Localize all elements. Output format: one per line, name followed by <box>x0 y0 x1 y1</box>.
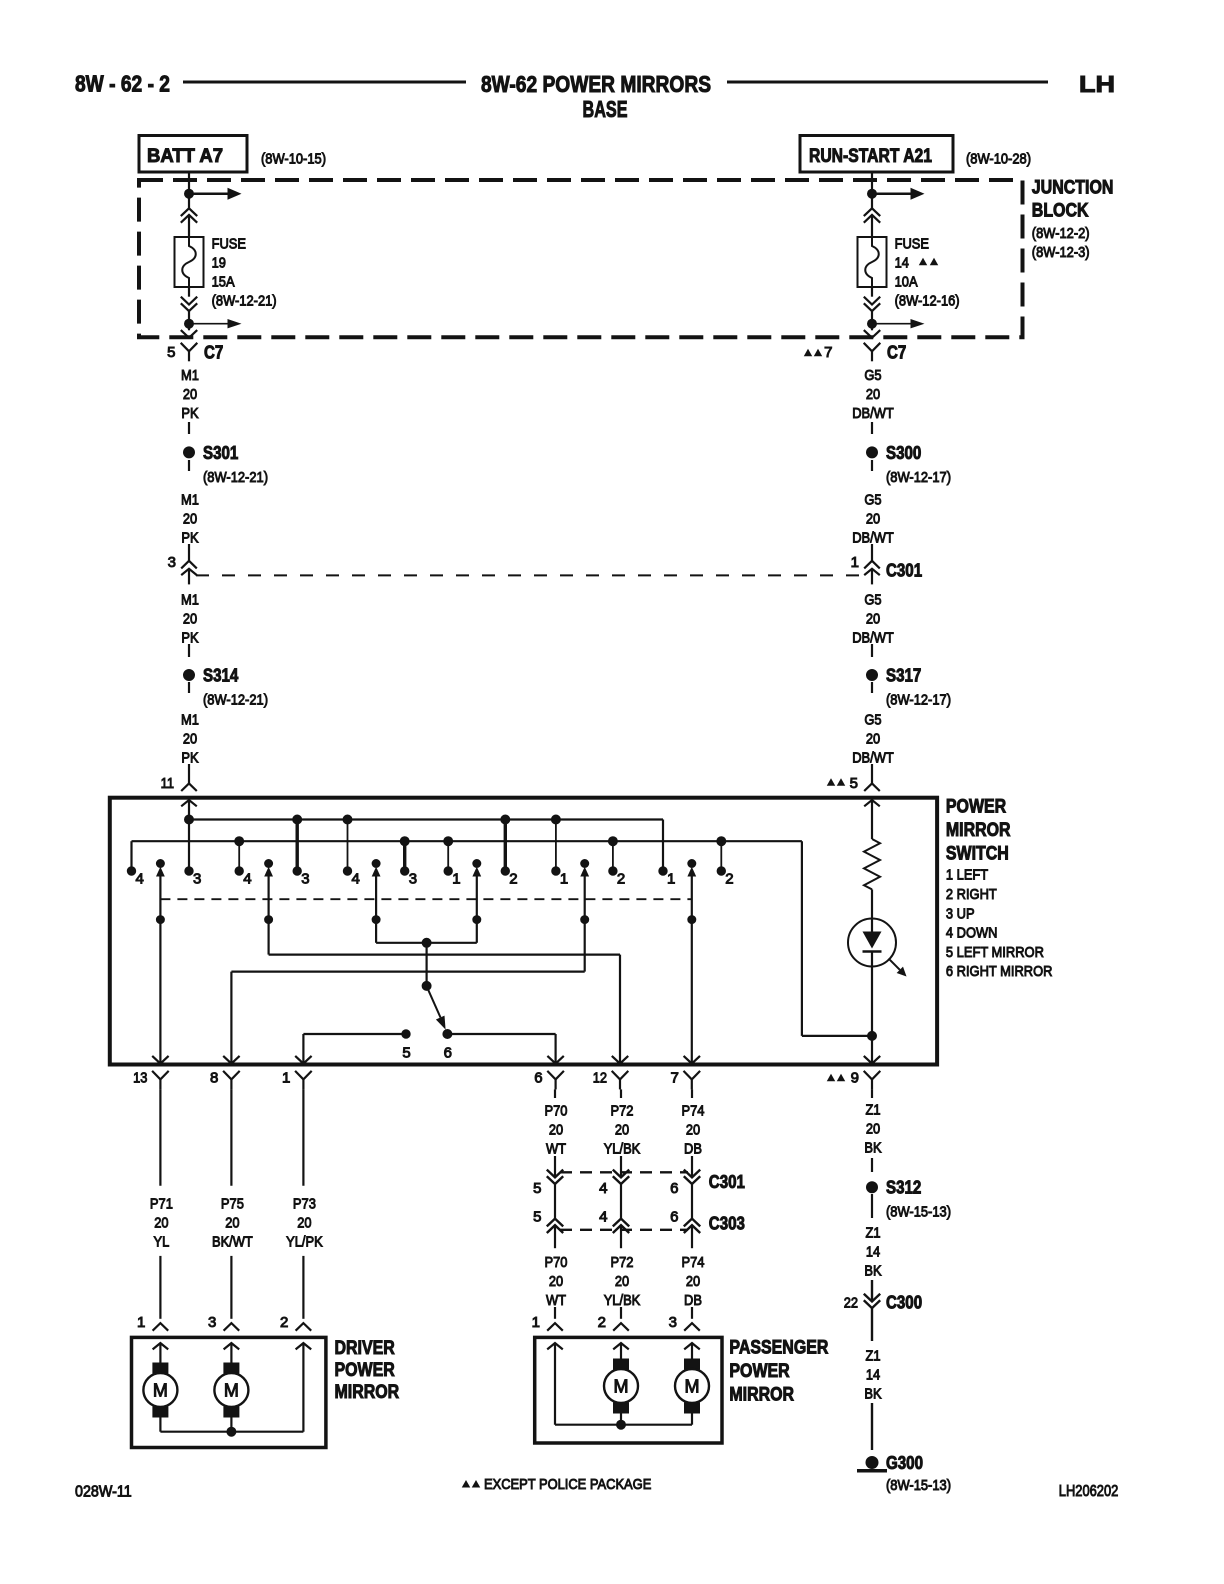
svg-text:S314: S314 <box>203 666 238 686</box>
svg-text:M1: M1 <box>181 711 199 728</box>
svg-text:1: 1 <box>667 871 675 888</box>
svg-text:JUNCTION: JUNCTION <box>1032 178 1114 199</box>
svg-text:12: 12 <box>593 1070 607 1087</box>
svg-text:14: 14 <box>895 254 909 271</box>
svg-text:028W-11: 028W-11 <box>75 1484 132 1501</box>
svg-text:20: 20 <box>183 386 197 403</box>
svg-text:LH206202: LH206202 <box>1059 1483 1119 1500</box>
svg-text:6 RIGHT MIRROR: 6 RIGHT MIRROR <box>946 963 1053 980</box>
svg-text:2: 2 <box>280 1314 288 1331</box>
svg-text:1: 1 <box>560 871 568 888</box>
svg-text:DRIVER: DRIVER <box>335 1338 396 1359</box>
svg-text:11: 11 <box>161 775 174 792</box>
svg-text:S300: S300 <box>886 443 921 463</box>
svg-text:C7: C7 <box>204 343 223 363</box>
svg-text:3: 3 <box>168 554 176 571</box>
svg-text:2 RIGHT: 2 RIGHT <box>946 886 997 903</box>
svg-text:FUSE: FUSE <box>212 235 246 252</box>
svg-text:3: 3 <box>669 1314 677 1331</box>
svg-text:1: 1 <box>532 1314 540 1331</box>
svg-text:2: 2 <box>617 871 625 888</box>
svg-text:7: 7 <box>670 1070 678 1087</box>
svg-text:BK: BK <box>864 1139 881 1156</box>
svg-text:BASE: BASE <box>583 96 628 122</box>
svg-text:S317: S317 <box>886 666 921 686</box>
svg-text:1: 1 <box>452 871 460 888</box>
svg-text:S301: S301 <box>203 443 238 463</box>
svg-text:1 LEFT: 1 LEFT <box>946 867 988 884</box>
svg-text:20: 20 <box>866 730 880 747</box>
svg-text:3: 3 <box>193 871 201 888</box>
svg-text:(8W-12-21): (8W-12-21) <box>203 691 268 708</box>
svg-text:DB/WT: DB/WT <box>852 629 894 646</box>
svg-text:C301: C301 <box>886 561 922 581</box>
svg-text:3 UP: 3 UP <box>946 905 975 922</box>
svg-text:PASSENGER: PASSENGER <box>729 1337 828 1358</box>
svg-text:PK: PK <box>181 405 198 422</box>
svg-text:20: 20 <box>549 1273 563 1290</box>
svg-text:13: 13 <box>133 1070 147 1087</box>
svg-text:2: 2 <box>509 871 517 888</box>
svg-text:M1: M1 <box>181 367 199 384</box>
svg-text:M1: M1 <box>181 591 199 608</box>
svg-text:3: 3 <box>409 871 417 888</box>
svg-text:8W - 62 - 2: 8W - 62 - 2 <box>75 71 170 97</box>
svg-text:YL/BK: YL/BK <box>604 1140 641 1157</box>
svg-text:4 DOWN: 4 DOWN <box>946 925 998 942</box>
svg-text:DB: DB <box>684 1140 702 1157</box>
svg-text:5: 5 <box>533 1209 541 1226</box>
svg-text:8W-62 POWER MIRRORS: 8W-62 POWER MIRRORS <box>481 71 711 97</box>
svg-text:(8W-10-15): (8W-10-15) <box>261 151 326 168</box>
svg-text:C301: C301 <box>709 1172 745 1192</box>
svg-text:P72: P72 <box>611 1102 634 1119</box>
svg-text:P72: P72 <box>611 1254 634 1271</box>
svg-text:22: 22 <box>844 1295 858 1312</box>
svg-text:POWER: POWER <box>729 1361 790 1382</box>
svg-text:5: 5 <box>167 344 175 361</box>
svg-text:M: M <box>224 1380 239 1400</box>
svg-text:P74: P74 <box>682 1254 705 1271</box>
svg-text:20: 20 <box>866 386 880 403</box>
svg-text:RUN-START A21: RUN-START A21 <box>809 146 932 167</box>
svg-text:(8W-12-17): (8W-12-17) <box>886 691 951 708</box>
svg-text:4: 4 <box>136 871 144 888</box>
svg-text:C303: C303 <box>709 1213 745 1233</box>
svg-text:G5: G5 <box>864 711 881 728</box>
svg-text:YL/PK: YL/PK <box>286 1233 323 1250</box>
svg-text:Z1: Z1 <box>865 1224 880 1241</box>
svg-text:6: 6 <box>444 1045 452 1062</box>
svg-text:14: 14 <box>866 1243 880 1260</box>
svg-text:19: 19 <box>212 254 226 271</box>
svg-text:POWER: POWER <box>335 1360 396 1381</box>
svg-text:20: 20 <box>866 510 880 527</box>
svg-text:C7: C7 <box>887 343 906 363</box>
svg-text:BK: BK <box>864 1385 881 1402</box>
svg-text:PK: PK <box>181 629 198 646</box>
svg-text:G5: G5 <box>864 367 881 384</box>
svg-text:15A: 15A <box>212 273 235 290</box>
svg-text:(8W-12-16): (8W-12-16) <box>895 292 960 309</box>
svg-text:20: 20 <box>297 1214 311 1231</box>
svg-text:8: 8 <box>210 1070 218 1087</box>
svg-text:P70: P70 <box>545 1254 568 1271</box>
svg-text:Z1: Z1 <box>865 1347 880 1364</box>
svg-text:G300: G300 <box>886 1453 923 1473</box>
svg-text:MIRROR: MIRROR <box>946 820 1011 841</box>
svg-text:2: 2 <box>725 871 733 888</box>
svg-text:C300: C300 <box>886 1293 922 1313</box>
svg-text:WT: WT <box>546 1140 566 1157</box>
svg-text:PK: PK <box>181 749 198 766</box>
svg-text:M: M <box>685 1376 700 1396</box>
svg-text:BLOCK: BLOCK <box>1032 201 1089 222</box>
svg-text:PK: PK <box>181 529 198 546</box>
svg-text:1: 1 <box>282 1070 290 1087</box>
svg-text:M1: M1 <box>181 491 199 508</box>
svg-text:20: 20 <box>549 1121 563 1138</box>
svg-text:DB/WT: DB/WT <box>852 749 894 766</box>
svg-text:G5: G5 <box>864 591 881 608</box>
svg-text:6: 6 <box>670 1180 678 1197</box>
svg-text:LH: LH <box>1079 71 1115 97</box>
svg-text:10A: 10A <box>895 273 918 290</box>
svg-text:BATT A7: BATT A7 <box>147 146 223 167</box>
svg-text:EXCEPT POLICE PACKAGE: EXCEPT POLICE PACKAGE <box>484 1476 651 1493</box>
svg-text:POWER: POWER <box>946 797 1007 818</box>
svg-text:MIRROR: MIRROR <box>335 1382 400 1403</box>
svg-text:14: 14 <box>866 1366 880 1383</box>
svg-text:(8W-12-2): (8W-12-2) <box>1032 225 1090 242</box>
svg-text:20: 20 <box>183 510 197 527</box>
svg-text:20: 20 <box>866 1120 880 1137</box>
svg-text:(8W-10-28): (8W-10-28) <box>966 151 1031 168</box>
svg-text:3: 3 <box>301 871 309 888</box>
svg-text:P71: P71 <box>150 1195 173 1212</box>
svg-text:(8W-12-3): (8W-12-3) <box>1032 244 1090 261</box>
svg-text:4: 4 <box>243 871 251 888</box>
svg-text:6: 6 <box>670 1209 678 1226</box>
svg-text:5: 5 <box>402 1045 410 1062</box>
svg-text:DB: DB <box>684 1292 702 1309</box>
svg-text:WT: WT <box>546 1292 566 1309</box>
svg-text:YL: YL <box>154 1233 170 1250</box>
svg-text:P74: P74 <box>682 1102 705 1119</box>
svg-text:6: 6 <box>534 1070 542 1087</box>
svg-text:M: M <box>614 1376 629 1396</box>
svg-text:9: 9 <box>851 1070 859 1087</box>
svg-text:(8W-12-21): (8W-12-21) <box>203 469 268 486</box>
svg-text:MIRROR: MIRROR <box>729 1384 794 1405</box>
svg-text:(8W-15-13): (8W-15-13) <box>886 1477 951 1494</box>
svg-text:5 LEFT MIRROR: 5 LEFT MIRROR <box>946 944 1044 961</box>
svg-text:Z1: Z1 <box>865 1101 880 1118</box>
svg-text:4: 4 <box>599 1209 607 1226</box>
svg-text:20: 20 <box>183 730 197 747</box>
svg-text:DB/WT: DB/WT <box>852 529 894 546</box>
svg-text:(8W-12-17): (8W-12-17) <box>886 469 951 486</box>
svg-text:S312: S312 <box>886 1178 921 1198</box>
svg-text:(8W-15-13): (8W-15-13) <box>886 1204 951 1221</box>
svg-text:P73: P73 <box>293 1195 316 1212</box>
svg-text:2: 2 <box>598 1314 606 1331</box>
svg-text:20: 20 <box>615 1121 629 1138</box>
svg-text:20: 20 <box>686 1121 700 1138</box>
svg-text:(8W-12-21): (8W-12-21) <box>212 292 277 309</box>
svg-text:20: 20 <box>615 1273 629 1290</box>
svg-text:20: 20 <box>154 1214 168 1231</box>
svg-text:BK/WT: BK/WT <box>212 1233 253 1250</box>
svg-text:P75: P75 <box>221 1195 244 1212</box>
svg-text:4: 4 <box>599 1180 607 1197</box>
svg-text:3: 3 <box>208 1314 216 1331</box>
svg-text:P70: P70 <box>545 1102 568 1119</box>
svg-text:1: 1 <box>851 554 859 571</box>
svg-text:DB/WT: DB/WT <box>852 405 894 422</box>
svg-text:20: 20 <box>183 610 197 627</box>
svg-text:7: 7 <box>824 344 832 361</box>
svg-text:FUSE: FUSE <box>895 235 929 252</box>
svg-text:4: 4 <box>352 871 360 888</box>
svg-text:20: 20 <box>866 610 880 627</box>
svg-text:5: 5 <box>850 775 858 792</box>
svg-text:20: 20 <box>686 1273 700 1290</box>
svg-text:SWITCH: SWITCH <box>946 844 1009 865</box>
svg-text:M: M <box>153 1380 168 1400</box>
svg-text:20: 20 <box>225 1214 239 1231</box>
svg-text:BK: BK <box>864 1262 881 1279</box>
svg-text:5: 5 <box>533 1180 541 1197</box>
svg-text:YL/BK: YL/BK <box>604 1292 641 1309</box>
svg-text:G5: G5 <box>864 491 881 508</box>
svg-text:1: 1 <box>137 1314 145 1331</box>
